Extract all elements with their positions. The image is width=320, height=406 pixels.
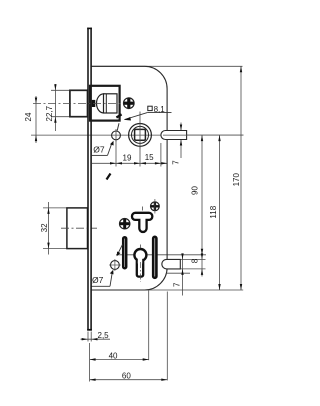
svg-text:7: 7 <box>172 282 181 287</box>
svg-text:Ø7: Ø7 <box>92 275 104 285</box>
svg-text:2,5: 2,5 <box>98 331 110 340</box>
svg-text:40: 40 <box>109 351 118 360</box>
svg-text:118: 118 <box>209 205 218 218</box>
svg-text:32: 32 <box>40 223 49 232</box>
svg-text:Ø7: Ø7 <box>93 144 105 154</box>
svg-text:7: 7 <box>172 160 181 165</box>
svg-text:8,1: 8,1 <box>154 105 166 114</box>
svg-text:8: 8 <box>191 258 200 263</box>
svg-text:22,7: 22,7 <box>45 105 54 121</box>
svg-text:60: 60 <box>122 371 131 380</box>
svg-text:15: 15 <box>145 153 154 162</box>
svg-text:90: 90 <box>190 186 199 195</box>
svg-text:24: 24 <box>24 112 33 121</box>
svg-text:19: 19 <box>123 154 132 163</box>
svg-text:170: 170 <box>232 173 241 187</box>
